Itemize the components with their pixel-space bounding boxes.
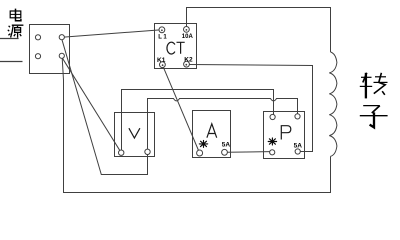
svg-text:K1: K1	[157, 57, 166, 64]
svg-text:5A: 5A	[222, 142, 231, 149]
svg-text:K2: K2	[184, 56, 193, 63]
svg-text:5A: 5A	[294, 142, 303, 149]
svg-text:L 1: L 1	[158, 35, 167, 41]
svg-text:10A: 10A	[182, 34, 194, 40]
